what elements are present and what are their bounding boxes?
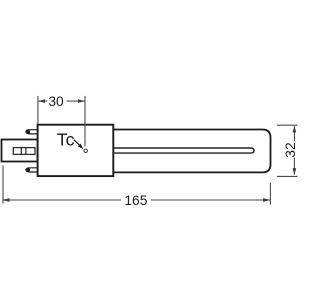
svg-text:Tc: Tc	[57, 130, 75, 150]
svg-text:32: 32	[283, 142, 298, 157]
svg-text:30: 30	[48, 94, 64, 109]
svg-text:165: 165	[124, 193, 147, 208]
